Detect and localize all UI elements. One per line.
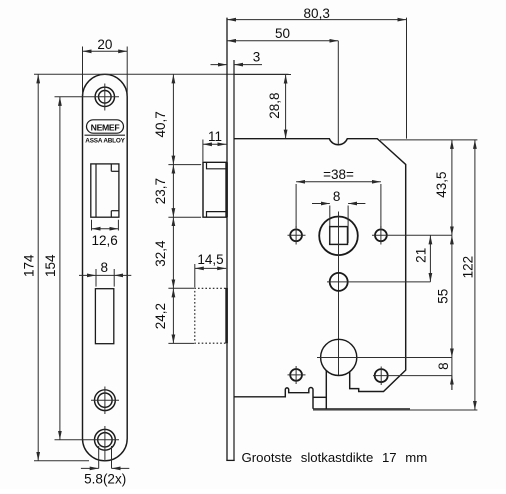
svg-text:5.8(2x): 5.8(2x) bbox=[84, 472, 126, 487]
svg-text:21: 21 bbox=[414, 248, 429, 263]
svg-text:8: 8 bbox=[100, 260, 108, 275]
svg-text:8: 8 bbox=[436, 362, 451, 370]
svg-text:ASSA ABLOY: ASSA ABLOY bbox=[85, 138, 125, 145]
svg-text:32,4: 32,4 bbox=[153, 240, 168, 267]
svg-text:24,2: 24,2 bbox=[153, 303, 168, 329]
svg-text:NEMEF: NEMEF bbox=[91, 122, 120, 132]
svg-text:154: 154 bbox=[43, 254, 58, 277]
svg-text:80,3: 80,3 bbox=[304, 6, 330, 21]
svg-text:3: 3 bbox=[253, 50, 261, 65]
svg-text:43,5: 43,5 bbox=[434, 171, 449, 197]
svg-text:11: 11 bbox=[208, 129, 222, 144]
svg-text:=38=: =38= bbox=[323, 167, 354, 182]
svg-text:122: 122 bbox=[461, 256, 476, 279]
svg-text:50: 50 bbox=[275, 26, 290, 41]
svg-text:23,7: 23,7 bbox=[153, 178, 168, 204]
svg-text:55: 55 bbox=[435, 289, 450, 304]
svg-text:Grootste slotkastdikte 17 mm: Grootste slotkastdikte 17 mm bbox=[242, 450, 428, 465]
svg-text:40,7: 40,7 bbox=[153, 111, 168, 137]
svg-text:174: 174 bbox=[22, 254, 37, 277]
svg-text:12,6: 12,6 bbox=[91, 233, 117, 248]
svg-text:20: 20 bbox=[97, 37, 112, 52]
svg-text:14,5: 14,5 bbox=[197, 252, 223, 267]
svg-text:28,8: 28,8 bbox=[267, 92, 282, 118]
svg-text:8: 8 bbox=[333, 189, 341, 204]
